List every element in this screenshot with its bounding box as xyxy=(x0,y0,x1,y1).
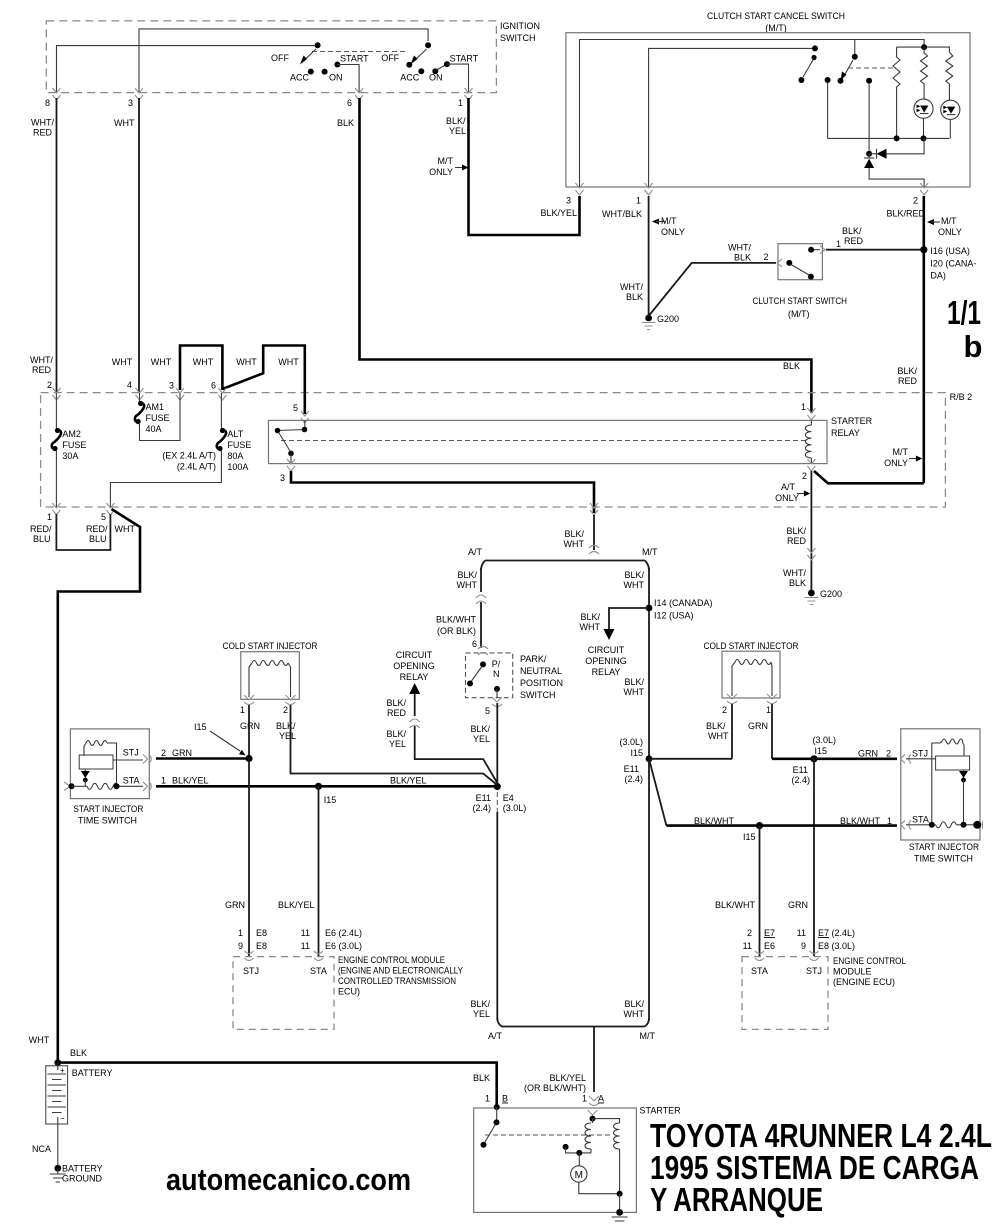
svg-text:E11: E11 xyxy=(793,765,808,775)
svg-text:ONLY: ONLY xyxy=(884,458,908,468)
svg-text:STA: STA xyxy=(123,776,140,786)
svg-text:STARTER: STARTER xyxy=(831,416,873,426)
svg-text:30A: 30A xyxy=(62,451,78,461)
svg-text:BLK: BLK xyxy=(626,292,643,302)
svg-text:G200: G200 xyxy=(657,314,679,324)
svg-text:(M/T): (M/T) xyxy=(788,309,810,319)
svg-text:ENGINE CONTROL: ENGINE CONTROL xyxy=(833,956,906,966)
wire BLK/RED CSS pin1 to junction xyxy=(826,249,922,251)
svg-text:6: 6 xyxy=(211,381,216,391)
svg-text:9: 9 xyxy=(801,941,806,951)
svg-text:I20 (CANA-: I20 (CANA- xyxy=(930,259,976,269)
svg-text:YEL: YEL xyxy=(473,1009,490,1019)
svg-text:I15: I15 xyxy=(814,746,827,756)
svg-text:I15: I15 xyxy=(194,722,207,732)
svg-text:4: 4 xyxy=(127,380,132,390)
svg-text:BLK/: BLK/ xyxy=(276,721,296,731)
ECM right dashed box xyxy=(742,928,906,1029)
svg-text:GRN: GRN xyxy=(858,749,878,759)
fuse AM2 30A xyxy=(52,393,87,507)
starter relay box xyxy=(269,416,873,464)
svg-text:−: − xyxy=(60,1114,65,1123)
wire GRN right injector pin1 to STJ xyxy=(771,704,773,759)
battery xyxy=(46,1063,113,1165)
svg-text:BLK/WHT: BLK/WHT xyxy=(715,900,756,910)
relay pin3 connector xyxy=(287,459,815,471)
resistor R1 xyxy=(921,47,928,99)
starter box xyxy=(474,1106,681,1213)
svg-text:CIRCUIT: CIRCUIT xyxy=(396,650,433,660)
svg-text:2: 2 xyxy=(283,705,288,715)
svg-text:STA: STA xyxy=(751,966,768,976)
wire M/T node to right bus xyxy=(646,755,653,762)
start injector time switch left box xyxy=(64,729,151,826)
svg-text:6: 6 xyxy=(472,639,477,649)
svg-text:(2.4L A/T): (2.4L A/T) xyxy=(177,462,216,472)
battery junction node xyxy=(54,1059,61,1066)
svg-text:OFF: OFF xyxy=(381,53,399,63)
svg-text:NEUTRAL: NEUTRAL xyxy=(520,666,562,676)
svg-text:STARTER: STARTER xyxy=(640,1106,682,1116)
ground G200 right xyxy=(804,589,842,605)
svg-text:GRN: GRN xyxy=(240,721,260,731)
svg-text:GRN: GRN xyxy=(748,721,768,731)
wire BLK/RED vertical M/T xyxy=(922,196,925,483)
svg-text:WHT: WHT xyxy=(151,357,172,367)
svg-text:BLK/: BLK/ xyxy=(386,729,406,739)
wire BLK/YEL P/N pin5 down xyxy=(496,703,498,787)
wire M/T branch BLK/WHT xyxy=(648,568,650,759)
svg-text:RED: RED xyxy=(898,376,918,386)
node I15 right on GRN xyxy=(810,755,817,762)
wire GRN STJ to I15 node xyxy=(156,757,249,760)
starter pin A entry xyxy=(588,1110,598,1122)
svg-text:WHT: WHT xyxy=(115,524,136,534)
LED D1 xyxy=(914,99,933,138)
svg-text:N: N xyxy=(493,669,500,679)
svg-text:BLK/WHT: BLK/WHT xyxy=(840,816,881,826)
svg-text:FUSE: FUSE xyxy=(62,440,86,450)
starter motor M xyxy=(571,1166,623,1197)
cold start injector left xyxy=(223,641,318,741)
svg-text:ENGINE CONTROL MODULE: ENGINE CONTROL MODULE xyxy=(338,955,445,965)
wire RED/BLU link pins 1-5 xyxy=(56,514,110,550)
svg-text:BLK/YEL: BLK/YEL xyxy=(549,1073,586,1083)
svg-text:BLK/: BLK/ xyxy=(624,999,644,1009)
svg-text:100A: 100A xyxy=(227,462,248,472)
wire CSCS pin1 rail xyxy=(649,48,813,187)
starter linkage dashed xyxy=(485,1134,611,1136)
svg-text:WHT/BLK: WHT/BLK xyxy=(602,209,642,219)
wire BLK/WHT down to right ECM xyxy=(759,826,761,956)
svg-text:BLK/RED: BLK/RED xyxy=(886,209,925,219)
ignition switch gang linkage dashed xyxy=(312,51,408,53)
svg-text:2: 2 xyxy=(47,380,52,390)
svg-text:CLUTCH START SWITCH: CLUTCH START SWITCH xyxy=(753,296,848,306)
svg-text:BLU: BLU xyxy=(33,534,51,544)
svg-text:BLK/: BLK/ xyxy=(446,116,466,126)
svg-text:BLK/: BLK/ xyxy=(842,226,862,236)
wire WHT bracket pin3 to pin6 xyxy=(180,346,222,391)
svg-text:BLK/: BLK/ xyxy=(457,570,477,580)
R/B2 bottom pin connectors xyxy=(52,503,815,560)
svg-text:GRN: GRN xyxy=(225,900,245,910)
svg-text:6: 6 xyxy=(347,98,352,108)
svg-text:WHT: WHT xyxy=(580,622,601,632)
svg-text:M/T: M/T xyxy=(640,1031,656,1041)
svg-text:BLK: BLK xyxy=(783,361,800,371)
svg-text:POSITION: POSITION xyxy=(520,678,563,688)
svg-text:1: 1 xyxy=(636,196,641,206)
svg-text:YEL: YEL xyxy=(279,731,296,741)
svg-text:STJ: STJ xyxy=(243,966,259,976)
cold start injector right xyxy=(704,641,799,741)
svg-text:1: 1 xyxy=(485,1094,490,1104)
svg-text:RELAY: RELAY xyxy=(831,428,860,438)
svg-text:(M/T): (M/T) xyxy=(765,23,787,33)
svg-text:2: 2 xyxy=(161,748,166,758)
wire pin3 rail xyxy=(139,29,428,93)
svg-text:A: A xyxy=(598,1094,604,1104)
svg-text:RELAY: RELAY xyxy=(592,667,621,677)
svg-text:2: 2 xyxy=(722,705,727,715)
svg-text:M/T: M/T xyxy=(893,447,909,457)
svg-text:(3.0L): (3.0L) xyxy=(503,803,527,813)
svg-text:I16 (USA): I16 (USA) xyxy=(930,246,970,256)
svg-text:A/T: A/T xyxy=(488,1031,503,1041)
svg-text:E6: E6 xyxy=(764,941,775,951)
svg-text:2: 2 xyxy=(747,928,752,938)
starter relay coil xyxy=(801,402,811,464)
battery ground xyxy=(32,1144,103,1184)
svg-text:BLK: BLK xyxy=(734,253,751,263)
svg-text:1: 1 xyxy=(582,1094,587,1104)
svg-text:ONLY: ONLY xyxy=(429,167,453,177)
svg-text:START INJECTOR: START INJECTOR xyxy=(73,804,143,814)
CSCS contact node 2 xyxy=(866,78,872,151)
svg-text:NCA: NCA xyxy=(32,1144,51,1154)
wire BLK/YEL down to ECM xyxy=(318,786,320,956)
ground G200 left xyxy=(642,314,679,330)
svg-text:CONTROLLED TRANSMISSION: CONTROLLED TRANSMISSION xyxy=(338,976,456,986)
svg-text:CIRCUIT: CIRCUIT xyxy=(588,645,625,655)
svg-text:AM1: AM1 xyxy=(146,402,165,412)
svg-text:P/: P/ xyxy=(492,659,501,669)
svg-text:WHT: WHT xyxy=(236,357,257,367)
svg-text:2: 2 xyxy=(763,252,768,262)
svg-text:E8: E8 xyxy=(256,941,267,951)
wire GRN injector pin1 down xyxy=(248,705,250,759)
svg-text:SWITCH: SWITCH xyxy=(520,690,556,700)
CSCS linkage dashed to rheostat xyxy=(848,67,893,69)
svg-text:YEL: YEL xyxy=(449,126,466,136)
svg-text:B: B xyxy=(502,1094,508,1104)
svg-text:1: 1 xyxy=(240,705,245,715)
node E11/E4 junction xyxy=(494,783,501,790)
CSCS bottom bus xyxy=(828,137,950,139)
svg-text:9: 9 xyxy=(238,941,243,951)
clutch start switch box xyxy=(753,244,848,319)
svg-text:80A: 80A xyxy=(227,451,243,461)
svg-text:A/T: A/T xyxy=(468,547,483,557)
svg-text:ONLY: ONLY xyxy=(938,227,962,237)
svg-text:(ENGINE ECU): (ENGINE ECU) xyxy=(833,977,895,987)
svg-text:RED: RED xyxy=(32,365,52,375)
svg-text:11: 11 xyxy=(301,941,310,951)
starter contact to motor xyxy=(563,1144,591,1166)
node I15 left xyxy=(245,755,252,762)
svg-text:E7 (2.4L): E7 (2.4L) xyxy=(818,928,855,938)
wire WHT/RED pin8 down xyxy=(56,98,58,393)
svg-text:START: START xyxy=(450,54,479,64)
start injector time switch right box xyxy=(901,729,983,864)
wire BLK/YEL down to merge xyxy=(496,812,498,1020)
circuit opening relay branch (A/T) xyxy=(386,650,497,783)
svg-text:BLK/: BLK/ xyxy=(580,612,600,622)
svg-text:E8 (3.0L): E8 (3.0L) xyxy=(818,941,855,951)
wire M/T BLK/RED joins pin2 xyxy=(814,471,924,483)
svg-text:1: 1 xyxy=(458,98,463,108)
svg-text:1: 1 xyxy=(766,705,771,715)
svg-text:ON: ON xyxy=(329,73,343,83)
svg-text:TIME SWITCH: TIME SWITCH xyxy=(78,816,137,826)
svg-text:E11: E11 xyxy=(476,793,491,803)
svg-text:WHT: WHT xyxy=(624,687,645,697)
svg-text:M/T: M/T xyxy=(642,547,658,557)
A/T M/T split bracket xyxy=(468,547,658,570)
CSCS contact node 1 xyxy=(825,77,831,138)
A/T M/T merge bracket xyxy=(488,1018,656,1092)
svg-text:WHT: WHT xyxy=(624,1009,645,1019)
svg-text:11: 11 xyxy=(301,928,310,938)
svg-text:R/B 2: R/B 2 xyxy=(950,392,973,402)
ignition switch contact set 1 xyxy=(271,42,369,92)
svg-text:(ENGINE AND ELECTRONICALLY: (ENGINE AND ELECTRONICALLY xyxy=(338,966,463,976)
svg-text:MODULE: MODULE xyxy=(833,967,872,977)
svg-text:M/T: M/T xyxy=(661,216,677,226)
svg-text:Y ARRANQUE: Y ARRANQUE xyxy=(650,1181,823,1218)
svg-text:COLD START INJECTOR: COLD START INJECTOR xyxy=(223,641,318,651)
svg-text:b: b xyxy=(964,329,983,364)
svg-text:E6 (3.0L): E6 (3.0L) xyxy=(325,941,362,951)
LED D2 xyxy=(941,100,960,138)
svg-text:BLK: BLK xyxy=(70,1048,87,1058)
svg-text:FUSE: FUSE xyxy=(146,413,170,423)
svg-text:RELAY: RELAY xyxy=(400,672,429,682)
svg-text:OFF: OFF xyxy=(271,53,289,63)
wire WHT/BLK to CSS pin2 xyxy=(649,263,776,316)
svg-text:BLU: BLU xyxy=(89,534,107,544)
svg-text:5: 5 xyxy=(101,512,106,522)
wire CSCS pin3 rail xyxy=(580,40,925,188)
svg-text:5: 5 xyxy=(485,706,490,716)
svg-text:automecanico.com: automecanico.com xyxy=(166,1162,411,1197)
svg-text:BLK/YEL: BLK/YEL xyxy=(540,208,577,218)
svg-text:40A: 40A xyxy=(146,424,162,434)
svg-text:RED/: RED/ xyxy=(86,524,108,534)
svg-text:E11: E11 xyxy=(624,764,639,774)
svg-text:STJ: STJ xyxy=(912,749,928,759)
svg-text:PARK/: PARK/ xyxy=(520,654,547,664)
svg-text:RED/: RED/ xyxy=(30,524,52,534)
svg-text:ALT: ALT xyxy=(227,429,243,439)
svg-text:BLK: BLK xyxy=(473,1073,490,1083)
svg-text:WHT: WHT xyxy=(624,580,645,590)
svg-text:STA: STA xyxy=(310,966,327,976)
svg-text:WHT/: WHT/ xyxy=(31,118,54,128)
svg-text:3: 3 xyxy=(128,98,133,108)
svg-text:GROUND: GROUND xyxy=(62,1174,102,1184)
R/B 2 dashed box xyxy=(41,392,973,507)
svg-text:3: 3 xyxy=(280,473,285,483)
svg-text:I12 (USA): I12 (USA) xyxy=(654,611,694,621)
svg-text:WHT: WHT xyxy=(112,357,133,367)
wire relay pin3 to center BLK/WHT xyxy=(291,471,594,513)
svg-text:1: 1 xyxy=(238,928,243,938)
svg-text:WHT/: WHT/ xyxy=(620,282,643,292)
ignition pin numbers xyxy=(45,98,463,108)
svg-text:BATTERY: BATTERY xyxy=(72,1068,113,1078)
svg-text:WHT/: WHT/ xyxy=(728,243,751,253)
svg-text:STA: STA xyxy=(912,815,929,825)
svg-text:BLK/: BLK/ xyxy=(386,698,406,708)
svg-text:BLK/: BLK/ xyxy=(786,526,806,536)
fuse ALT 80A/100A xyxy=(110,393,251,507)
svg-text:BLK/: BLK/ xyxy=(470,999,490,1009)
wire GRN down to right ECM xyxy=(813,759,815,956)
svg-text:(3.0L): (3.0L) xyxy=(619,737,643,747)
wire pin8 rail xyxy=(57,46,318,93)
starter switch from B xyxy=(481,1104,500,1148)
svg-text:ECU): ECU) xyxy=(338,987,360,997)
svg-text:IGNITION: IGNITION xyxy=(500,21,540,31)
starter ground xyxy=(612,1194,628,1224)
svg-text:I14 (CANADA): I14 (CANADA) xyxy=(654,598,713,608)
wire BLK pin6 to starter relay pin1 xyxy=(360,98,812,413)
svg-text:BLK/WHT: BLK/WHT xyxy=(694,816,735,826)
wire BLK/YEL injector pin2 right xyxy=(291,705,498,785)
svg-text:FUSE: FUSE xyxy=(227,440,251,450)
svg-text:11: 11 xyxy=(797,928,806,938)
diode D4 vertical xyxy=(864,154,924,187)
svg-text:M: M xyxy=(575,1170,583,1181)
svg-text:8: 8 xyxy=(45,98,50,108)
CSCS rheostat element xyxy=(893,47,900,138)
node I15 mid xyxy=(315,783,322,790)
svg-text:(2.4): (2.4) xyxy=(472,803,491,813)
resistor R2 xyxy=(946,52,953,101)
svg-text:WHT: WHT xyxy=(457,580,478,590)
svg-text:3: 3 xyxy=(566,196,571,206)
svg-text:START INJECTOR: START INJECTOR xyxy=(909,842,979,852)
svg-text:A/T: A/T xyxy=(781,482,796,492)
park/neutral position switch dashed box xyxy=(466,647,564,707)
diode D3 horizontal xyxy=(866,138,924,158)
svg-text:BLK/: BLK/ xyxy=(470,724,490,734)
wire WHT pin3 down xyxy=(138,98,140,393)
svg-text:G200: G200 xyxy=(820,589,842,599)
CSCS switch 1 xyxy=(798,45,818,83)
svg-text:1: 1 xyxy=(801,402,806,412)
svg-text:DA): DA) xyxy=(930,271,946,281)
svg-text:GRN: GRN xyxy=(172,748,192,758)
wire WHT/BLK CSCS pin1 to G200 xyxy=(648,196,650,315)
svg-text:YEL: YEL xyxy=(389,739,406,749)
svg-text:BLK: BLK xyxy=(337,118,354,128)
svg-text:E4: E4 xyxy=(503,793,514,803)
svg-text:STJ: STJ xyxy=(123,748,139,758)
svg-text:1: 1 xyxy=(47,512,52,522)
svg-text:STJ: STJ xyxy=(806,966,822,976)
svg-text:BLK/YEL: BLK/YEL xyxy=(390,776,427,786)
svg-text:RED: RED xyxy=(787,536,807,546)
svg-text:1: 1 xyxy=(887,816,892,826)
svg-text:BLK/: BLK/ xyxy=(706,721,726,731)
svg-text:(EX 2.4L A/T): (EX 2.4L A/T) xyxy=(162,451,216,461)
wire BLK/WHT right injector pin2 down xyxy=(731,704,733,759)
starter solenoid coils xyxy=(585,1119,620,1194)
svg-text:11: 11 xyxy=(743,941,752,951)
svg-text:GRN: GRN xyxy=(788,900,808,910)
svg-text:(OR BLK/WHT): (OR BLK/WHT) xyxy=(524,1083,586,1093)
svg-text:CLUTCH START CANCEL SWITCH: CLUTCH START CANCEL SWITCH xyxy=(707,11,845,21)
svg-text:ONLY: ONLY xyxy=(661,227,685,237)
svg-text:(3.0L): (3.0L) xyxy=(812,735,836,745)
svg-text:RED: RED xyxy=(387,708,407,718)
svg-text:WHT/: WHT/ xyxy=(30,355,53,365)
svg-text:ONLY: ONLY xyxy=(775,493,799,503)
wire M/T BLK/WHT down to merge xyxy=(648,759,650,1020)
svg-text:E8: E8 xyxy=(256,928,267,938)
svg-text:BLK/: BLK/ xyxy=(624,677,644,687)
CSCS pin connectors xyxy=(576,183,929,195)
svg-text:BLK/WHT: BLK/WHT xyxy=(436,615,477,625)
svg-text:BLK/: BLK/ xyxy=(564,529,584,539)
svg-text:WHT: WHT xyxy=(708,731,729,741)
svg-text:1: 1 xyxy=(836,239,841,249)
ECM left dashed box xyxy=(233,928,463,1029)
svg-text:1: 1 xyxy=(161,776,166,786)
wire relay pin2 down xyxy=(810,471,812,590)
R/B2 top pin connectors xyxy=(53,388,816,423)
wire BLK/YEL pin1 to CSCS pin3 xyxy=(469,98,580,235)
svg-text:BATTERY: BATTERY xyxy=(62,1164,103,1174)
svg-text:BLK: BLK xyxy=(789,578,806,588)
CSCS switch 2 xyxy=(838,40,858,84)
svg-text:I15: I15 xyxy=(630,748,643,758)
svg-text:WHT: WHT xyxy=(278,357,299,367)
svg-text:BLK/YEL: BLK/YEL xyxy=(172,776,209,786)
wire BLK/WHT bus to right STA xyxy=(666,824,897,827)
svg-text:YEL: YEL xyxy=(473,734,490,744)
svg-text:E6 (2.4L): E6 (2.4L) xyxy=(325,928,362,938)
starter relay switch xyxy=(275,420,308,463)
svg-text:OPENING: OPENING xyxy=(393,661,435,671)
svg-text:I15: I15 xyxy=(324,795,337,805)
svg-text:START: START xyxy=(340,54,369,64)
wire WHT battery feed xyxy=(58,509,140,1063)
svg-text:OPENING: OPENING xyxy=(585,656,627,666)
svg-text:WHT: WHT xyxy=(29,1035,50,1045)
svg-text:1/1: 1/1 xyxy=(947,294,981,331)
svg-text:2: 2 xyxy=(913,196,918,206)
svg-text:ON: ON xyxy=(429,73,443,83)
ignition switch contact set 2 xyxy=(381,42,479,92)
wire BLK/YEL STA to E11/E4 xyxy=(156,785,497,788)
ignition switch SW1 dashed box xyxy=(46,21,540,93)
svg-text:AM2: AM2 xyxy=(62,429,81,439)
svg-text:(OR BLK): (OR BLK) xyxy=(437,626,476,636)
